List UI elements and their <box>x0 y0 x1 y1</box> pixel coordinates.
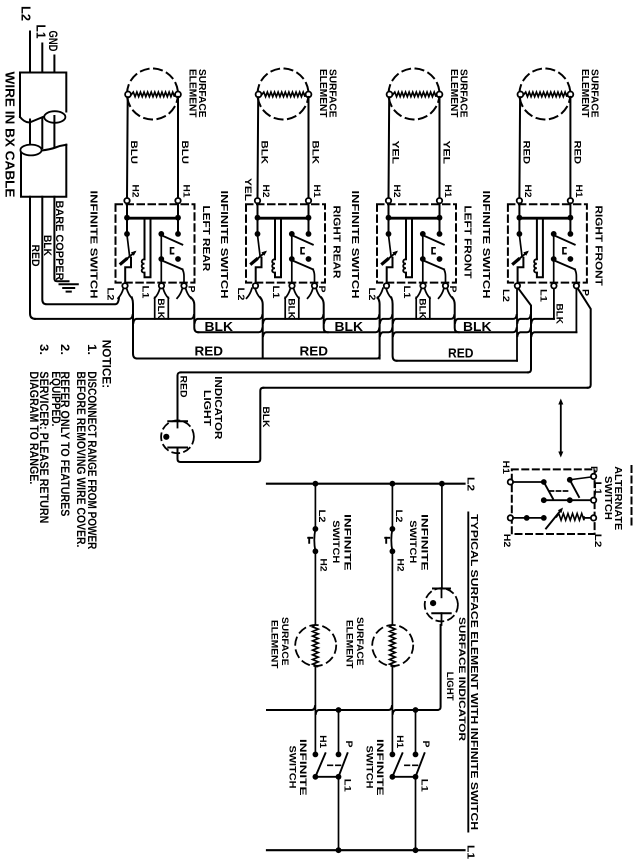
switch S3 P leg <box>444 269 446 283</box>
arrow to alternate switch <box>560 404 562 452</box>
svg-text:ELEMENT: ELEMENT <box>579 69 590 118</box>
switch S1 junction dot H2 <box>124 215 130 221</box>
svg-text:H2: H2 <box>130 185 141 198</box>
switch S2 lower right contact dots <box>289 256 295 262</box>
svg-text:GND: GND <box>46 31 60 52</box>
wire H2 to element circuit 2 <box>391 551 393 624</box>
switch S4 bimetal heater loop <box>536 218 538 259</box>
ground symbol <box>60 283 78 285</box>
svg-text:SURFACE INDICATOR: SURFACE INDICATOR <box>456 617 467 741</box>
alternate switch right dashed edge mark <box>631 466 633 528</box>
switch S1 upper blade <box>161 235 182 244</box>
switch S1 terminal P <box>181 283 186 288</box>
surface element E1 heating coil <box>132 92 175 97</box>
switch S2 contact column link <box>291 234 293 259</box>
switch S1 wire H2 down <box>126 203 128 234</box>
alternate switch terminal L1 <box>591 498 596 503</box>
wire P drop circuit 1 <box>336 707 342 713</box>
alternate switch heater coil <box>557 514 585 521</box>
wire S4 L2 straight tail to red bus seg2 <box>516 289 518 361</box>
switch S3 wire H2 down <box>388 203 390 234</box>
mini infinite switch 2 upper contact <box>390 526 396 532</box>
switch S2 contact hook <box>301 248 304 254</box>
indicator light L1 filament top <box>168 420 187 422</box>
wire element E1 right to H1 (BLU) <box>177 97 179 198</box>
svg-text:L1: L1 <box>270 286 281 300</box>
label P tick (mini switch 2) <box>385 537 389 539</box>
wire L1 between sheaths <box>41 118 43 148</box>
svg-text:L2: L2 <box>592 534 603 548</box>
svg-text:H1: H1 <box>181 185 192 199</box>
switch S4 wire H1 down <box>569 203 571 234</box>
svg-text:H2: H2 <box>260 185 271 198</box>
wire S3 L2 right tail to red bus seg2 <box>391 297 396 360</box>
bus L1 rail (typical circuit) <box>267 849 465 851</box>
connector bell S3 P <box>439 288 444 298</box>
wire element to H1 circuit 1 <box>314 667 316 755</box>
mini switch 2 lower contacts <box>390 752 396 758</box>
switch S3 L1 leg <box>422 259 424 283</box>
svg-text:P: P <box>588 466 599 474</box>
mini switch 1 lower bar <box>315 776 338 778</box>
mini infinite switch 1 upper contact <box>313 526 319 532</box>
infinite switch S1 terminal H1 <box>175 198 180 203</box>
wire S2 L1 channel to BLK bus <box>284 297 286 319</box>
switch S2 left contact dot <box>255 231 261 237</box>
svg-text:H1: H1 <box>573 185 584 199</box>
wire element E1 left to H2 (BLU) <box>126 97 129 198</box>
svg-text:INFINITE SWITCH: INFINITE SWITCH <box>480 191 492 299</box>
svg-text:H2: H2 <box>501 534 512 548</box>
infinite switch S4 dashed enclosure <box>508 204 587 282</box>
bus L2 RED segment 1 <box>137 356 380 359</box>
svg-text:H1: H1 <box>500 461 511 475</box>
alternate switch terminal L2 <box>591 515 596 520</box>
svg-text:H1: H1 <box>317 735 328 749</box>
title underline <box>467 513 469 832</box>
connector bell S3 L1 <box>416 288 421 298</box>
svg-text:2.: 2. <box>58 344 72 355</box>
svg-text:H1: H1 <box>311 185 322 199</box>
bus L2 RED segment 2 <box>397 360 517 362</box>
svg-text:SWITCH: SWITCH <box>364 746 375 789</box>
switch S3 contact column link <box>422 234 424 259</box>
junction dot L2 rail light <box>439 481 445 487</box>
switch S2 bimetal tick <box>252 259 257 263</box>
switch S1 bimetal heater loop <box>144 218 146 259</box>
surface element E1 left terminal <box>125 92 131 98</box>
alternate switch H2 lead <box>513 517 544 519</box>
infinite switch S1 terminal H2 <box>124 198 129 203</box>
svg-text:BEFORE REMOVING WIRE COVER.: BEFORE REMOVING WIRE COVER. <box>74 371 86 547</box>
alternate switch coil to L2 <box>584 517 591 519</box>
svg-text:ELEMENT: ELEMENT <box>269 620 280 669</box>
switch S4 L1 leg <box>553 259 555 283</box>
switch S3 junction dot H1 <box>437 215 443 221</box>
svg-text:L1: L1 <box>592 482 603 496</box>
svg-text:INFINITE: INFINITE <box>374 739 385 796</box>
switch S3 upper blade <box>423 235 444 244</box>
alternate switch P lead <box>570 477 591 480</box>
svg-text:DIAGRAM TO RANGE.: DIAGRAM TO RANGE. <box>27 371 39 484</box>
switch S3 wire H1 down <box>439 203 441 234</box>
svg-text:L2: L2 <box>235 288 246 301</box>
switch S4 P leg <box>575 269 577 283</box>
switch S2 lower blade <box>292 260 313 269</box>
switch S2 junction dot H1 <box>306 215 312 221</box>
svg-text:L1: L1 <box>140 286 151 300</box>
switch S3 lower right contact dots <box>420 256 426 262</box>
svg-text:L2: L2 <box>464 477 475 492</box>
connector bell S2 L1 <box>285 288 290 298</box>
svg-text:ELEMENT: ELEMENT <box>317 69 328 118</box>
svg-text:INFINITE SWITCH: INFINITE SWITCH <box>349 191 361 299</box>
svg-text:BLK: BLK <box>205 319 234 334</box>
svg-text:ELEMENT: ELEMENT <box>448 69 459 118</box>
svg-text:L1: L1 <box>537 289 548 303</box>
switch S1 terminal L2 <box>122 283 127 288</box>
mini switch 2 gang link dashes <box>405 764 418 766</box>
svg-text:L2: L2 <box>19 6 34 21</box>
alternate switch bimetal arrow <box>546 510 561 529</box>
bus pilot P (line B) <box>198 328 576 336</box>
svg-text:BLK: BLK <box>554 304 565 325</box>
wire bare copper to ground <box>54 197 68 282</box>
switch S1 blade to L2 leg <box>125 258 131 283</box>
svg-text:BLK: BLK <box>259 141 270 165</box>
switch S4 upper right contact dots <box>551 231 557 237</box>
alternate switch contact1 dots <box>541 479 547 485</box>
infinite switch S2 terminal H2 <box>255 198 260 203</box>
switch S3 bimetal contact fixed lead <box>389 235 392 256</box>
svg-text:H1: H1 <box>394 735 405 749</box>
svg-text:BLK: BLK <box>416 298 427 319</box>
svg-text:H2: H2 <box>391 185 402 198</box>
surface element (typical 2) dashed body <box>372 625 413 666</box>
svg-text:RED: RED <box>520 141 531 165</box>
switch S4 internal bus H2-H1 <box>519 217 570 220</box>
wire S3 L1 channel to BLK bus <box>415 297 417 319</box>
svg-text:LIGHT: LIGHT <box>444 672 455 701</box>
surface element (typical 2) coil <box>390 625 396 667</box>
svg-text:INFINITE: INFINITE <box>297 739 308 796</box>
switch S1 terminal L1 <box>159 283 164 288</box>
switch S4 contact column link <box>553 234 555 259</box>
svg-text:L2: L2 <box>500 289 511 302</box>
surface element E4 right terminal <box>568 92 574 98</box>
switch S1 bimetal tick <box>121 259 126 263</box>
junction dot L2 rail circuit 2 <box>390 481 396 487</box>
switch S4 bimetal contact fixed lead <box>519 235 522 256</box>
alternate switch dashed enclosure <box>512 469 595 534</box>
svg-text:YEL: YEL <box>242 178 253 201</box>
switch S1 wire H1 down <box>177 203 179 234</box>
switch S4 contact hook <box>563 248 566 254</box>
infinite switch S3 terminal H2 <box>386 198 391 203</box>
svg-text:RED: RED <box>195 343 224 358</box>
switch S1 contact hook <box>171 248 174 254</box>
BX cable sheath lower section <box>21 145 66 197</box>
mini switch 1 lower contacts <box>313 752 319 758</box>
switch S3 terminal L2 <box>384 283 389 288</box>
wire RED line to indicator light <box>178 372 181 419</box>
svg-text:RED: RED <box>177 376 188 398</box>
switch S2 terminal L2 <box>253 283 258 288</box>
switch S2 bimetal contact fixed lead <box>258 235 261 256</box>
wire BLK to switch 1 L2 terminal <box>42 197 119 305</box>
wire H2 to element circuit 1 <box>314 551 316 624</box>
switch S1 bimetal contact fixed lead <box>127 235 130 256</box>
wire S1 P to pilot bus <box>191 297 199 332</box>
svg-text:L1: L1 <box>342 779 353 793</box>
switch S1 junction dot H1 <box>175 215 181 221</box>
surface element E2 left terminal <box>256 92 262 98</box>
svg-text:INFINITE SWITCH: INFINITE SWITCH <box>218 191 230 299</box>
switch S4 bimetal blade <box>515 252 527 262</box>
switch S3 terminal L1 <box>420 283 425 288</box>
svg-text:BLK: BLK <box>260 407 271 428</box>
connector bell S2 P <box>308 288 313 298</box>
surface element E4 heating coil <box>524 92 567 97</box>
switch S3 junction dot H2 <box>386 215 392 221</box>
switch S1 lower right contact dots <box>158 256 164 262</box>
svg-text:LIGHT: LIGHT <box>201 390 212 426</box>
wire L1 to rail circuit 2 <box>415 777 417 850</box>
switch S4 junction dot H1 <box>568 215 574 221</box>
svg-text:RIGHT REAR: RIGHT REAR <box>331 206 343 279</box>
wire GND between sheaths <box>53 116 55 147</box>
switch S4 wire H2 down <box>518 203 520 234</box>
alternate switch H2 dots <box>524 515 530 521</box>
surface element E2 right terminal <box>306 92 312 98</box>
label P tick (mini switch 1) <box>308 537 312 539</box>
svg-text:EQUIPPED.: EQUIPPED. <box>49 371 61 426</box>
switch S4 terminal P <box>574 283 579 288</box>
surface element E2 dashed body <box>258 69 309 120</box>
svg-text:SURFACE: SURFACE <box>279 617 290 666</box>
switch S3 left contact dot <box>386 231 392 237</box>
switch S1 P leg <box>183 269 185 283</box>
switch S3 lower blade <box>423 260 444 269</box>
wire element E3 left to H2 (YEL) <box>388 97 391 198</box>
alternate switch L1 lead <box>544 499 591 501</box>
svg-text:RED: RED <box>571 141 582 165</box>
indicator light L1 dashed body <box>161 420 194 453</box>
surface element E1 right terminal <box>175 92 181 98</box>
wire element E3 right to H1 (YEL) <box>439 97 441 198</box>
wire L2 between sheaths <box>29 120 31 150</box>
switch S4 terminal L1 <box>551 283 556 288</box>
surface element E3 left terminal <box>387 92 393 98</box>
alternate switch terminal H1 <box>508 479 513 484</box>
switch S4 blade to L2 leg <box>518 258 524 283</box>
switch S2 L1 leg <box>291 259 293 283</box>
surface element (typical 1) coil <box>313 625 319 667</box>
svg-text:BLK: BLK <box>155 298 166 319</box>
switch S4 terminal L2 <box>515 283 520 288</box>
switch S3 terminal P <box>443 283 448 288</box>
alternate switch contact2 dots <box>567 477 573 483</box>
switch S2 wire H1 down <box>308 203 310 234</box>
svg-text:ELEMENT: ELEMENT <box>186 69 197 118</box>
switch S1 lower blade <box>161 260 182 269</box>
wire S3 L2 left tail to red bus seg1 <box>378 297 380 358</box>
switch S2 junction dot H2 <box>255 215 261 221</box>
svg-text:SWITCH: SWITCH <box>330 520 341 563</box>
wire P drop circuit 2 <box>413 707 419 713</box>
switch S4 lower right contact dots <box>551 256 557 262</box>
surface element E4 dashed body <box>519 69 570 120</box>
infinite switch S3 dashed enclosure <box>377 204 456 282</box>
wire S2 P to pilot bus <box>321 297 327 332</box>
surface element E3 heating coil <box>393 92 436 97</box>
infinite switch S4 terminal H1 <box>568 198 573 203</box>
svg-text:L2: L2 <box>316 510 327 523</box>
wire S1 L1 channel to BLK bus <box>154 297 156 319</box>
connector bell S2 L2 <box>247 288 252 298</box>
switch S1 contact column link <box>160 234 162 259</box>
svg-text:SWITCH: SWITCH <box>287 746 298 789</box>
svg-text:H2: H2 <box>394 559 405 572</box>
svg-text:L1: L1 <box>464 845 475 860</box>
wire S4 L2 diagonal tail to indicator RED line <box>519 289 531 373</box>
wire L2 into cable <box>29 32 31 73</box>
switch S4 left contact dot <box>517 231 523 237</box>
wire element E4 left to H2 (RED) <box>518 97 521 198</box>
switch S1 upper right contact dots <box>158 231 164 237</box>
indicator light L1 dot <box>163 434 169 440</box>
switch S2 terminal L1 <box>289 283 294 288</box>
surface element E3 right terminal <box>437 92 443 98</box>
svg-text:H2: H2 <box>522 185 533 198</box>
svg-text:RED: RED <box>448 345 474 360</box>
switch S3 blade to L2 leg <box>387 258 393 283</box>
switch S3 bimetal blade <box>384 252 396 262</box>
svg-text:ELEMENT: ELEMENT <box>344 620 355 669</box>
switch S2 P leg <box>313 269 315 283</box>
wire element E2 right to H1 (BLK) <box>308 97 310 198</box>
svg-text:BLK: BLK <box>310 141 321 165</box>
svg-text:L2: L2 <box>366 288 377 301</box>
svg-text:L2: L2 <box>104 288 115 301</box>
svg-text:H2: H2 <box>317 559 328 572</box>
wire L1 into cable <box>41 44 43 73</box>
wire S4 P straight tail to pilot bus end <box>575 289 577 333</box>
wire S1 L2 to red bus <box>132 297 137 358</box>
infinite switch S4 terminal H2 <box>517 198 522 203</box>
svg-text:RED: RED <box>300 343 329 358</box>
junction dot L1 rail circuit 1 <box>336 847 342 853</box>
svg-text:YEL: YEL <box>390 141 401 165</box>
wire pilot BLK long line <box>263 387 587 389</box>
svg-text:BLK: BLK <box>335 319 364 334</box>
svg-text:INFINITE SWITCH: INFINITE SWITCH <box>88 191 100 299</box>
infinite switch S3 terminal H1 <box>437 198 442 203</box>
surface indicator light dot <box>430 600 436 606</box>
surface element E4 left terminal <box>518 92 524 98</box>
svg-text:BLK: BLK <box>285 298 296 319</box>
svg-text:SWITCH: SWITCH <box>407 520 418 563</box>
switch S2 wire H2 down <box>257 203 259 234</box>
svg-text:SURFACE: SURFACE <box>354 617 365 666</box>
svg-text:TYPICAL SURFACE ELEMENT WITH I: TYPICAL SURFACE ELEMENT WITH INFINITE SW… <box>468 514 480 830</box>
svg-text:LEFT FRONT: LEFT FRONT <box>462 206 474 280</box>
switch S3 bimetal heater loop <box>405 218 407 259</box>
alternate switch terminal H2 <box>508 515 513 520</box>
svg-text:L1: L1 <box>401 286 412 300</box>
svg-text:INFINITE: INFINITE <box>341 514 352 571</box>
svg-text:INFINITE: INFINITE <box>418 514 429 571</box>
alternate switch contact2 blade <box>571 481 580 497</box>
wire S4 P diagonal tail to indicator BLK line <box>578 289 591 388</box>
connector bell S1 P <box>177 288 182 298</box>
surface indicator light filament bottom <box>432 612 450 614</box>
surface indicator light dashed body <box>425 588 458 621</box>
wire L2 to surface indicator light <box>441 484 443 589</box>
wire L2 drop circuit 2 <box>391 484 393 529</box>
mini switch 2 lower bar <box>392 776 415 778</box>
alternate switch terminal P <box>591 474 596 479</box>
alternate switch gang link dashes <box>550 490 569 492</box>
wire RED feeder to L1 bus <box>30 197 35 319</box>
connector bell S3 L2 <box>378 288 383 298</box>
switch S2 internal bus H2-H1 <box>258 217 309 220</box>
switch S3 internal bus H2-H1 <box>389 217 440 220</box>
svg-text:BLU: BLU <box>179 141 190 165</box>
bus L2 rail (typical circuit) <box>267 483 465 485</box>
switch S2 upper right contact dots <box>289 231 295 237</box>
svg-text:L1: L1 <box>419 779 430 793</box>
svg-text:BLK: BLK <box>463 319 492 334</box>
mini switch 1 gang link dashes <box>328 764 341 766</box>
svg-text:L2: L2 <box>393 510 404 523</box>
bus middle pilot (typical) <box>267 706 438 714</box>
indicator light L1 filament bottom <box>168 447 187 449</box>
svg-text:P: P <box>343 741 354 749</box>
switch S1 left contact dot <box>124 231 130 237</box>
switch S3 bimetal tick <box>383 259 388 263</box>
switch S1 bimetal blade <box>122 252 134 262</box>
svg-text:INDICATOR: INDICATOR <box>212 376 223 440</box>
switch S2 upper blade <box>292 235 313 244</box>
infinite switch S2 terminal H1 <box>306 198 311 203</box>
svg-text:WIRE IN BX CABLE: WIRE IN BX CABLE <box>3 72 17 198</box>
wire S2 L2 to red bus <box>260 297 262 358</box>
svg-text:NOTICE:: NOTICE: <box>100 340 114 389</box>
alternate switch contact1 blade <box>545 483 554 499</box>
svg-text:BLU: BLU <box>128 141 139 165</box>
switch S3 upper right contact dots <box>420 231 426 237</box>
wire GND into cable <box>53 56 55 73</box>
switch S2 terminal P <box>312 283 317 288</box>
alternate switch H1 lead <box>513 481 544 483</box>
svg-text:RIGHT FRONT: RIGHT FRONT <box>592 206 604 287</box>
surface indicator light filament top <box>433 588 450 590</box>
junction dot L2 rail circuit 1 <box>313 481 319 487</box>
switch S1 L1 leg <box>160 259 162 283</box>
svg-text:H1: H1 <box>442 185 453 199</box>
svg-text:P: P <box>420 741 431 749</box>
junction dot L1 rail circuit 2 <box>413 847 419 853</box>
switch S2 blade to L2 leg <box>256 258 262 283</box>
BX cable sheath upper section <box>20 73 66 118</box>
wire element E4 right to H1 (RED) <box>569 97 571 198</box>
wire L2 drop circuit 1 <box>314 484 316 529</box>
surface element E2 heating coil <box>262 92 305 97</box>
bus L1 BLK (line A) <box>35 315 554 323</box>
wire element E2 left to H2 (BLK) <box>257 97 260 198</box>
surface element (typical 1) dashed body <box>295 625 336 666</box>
